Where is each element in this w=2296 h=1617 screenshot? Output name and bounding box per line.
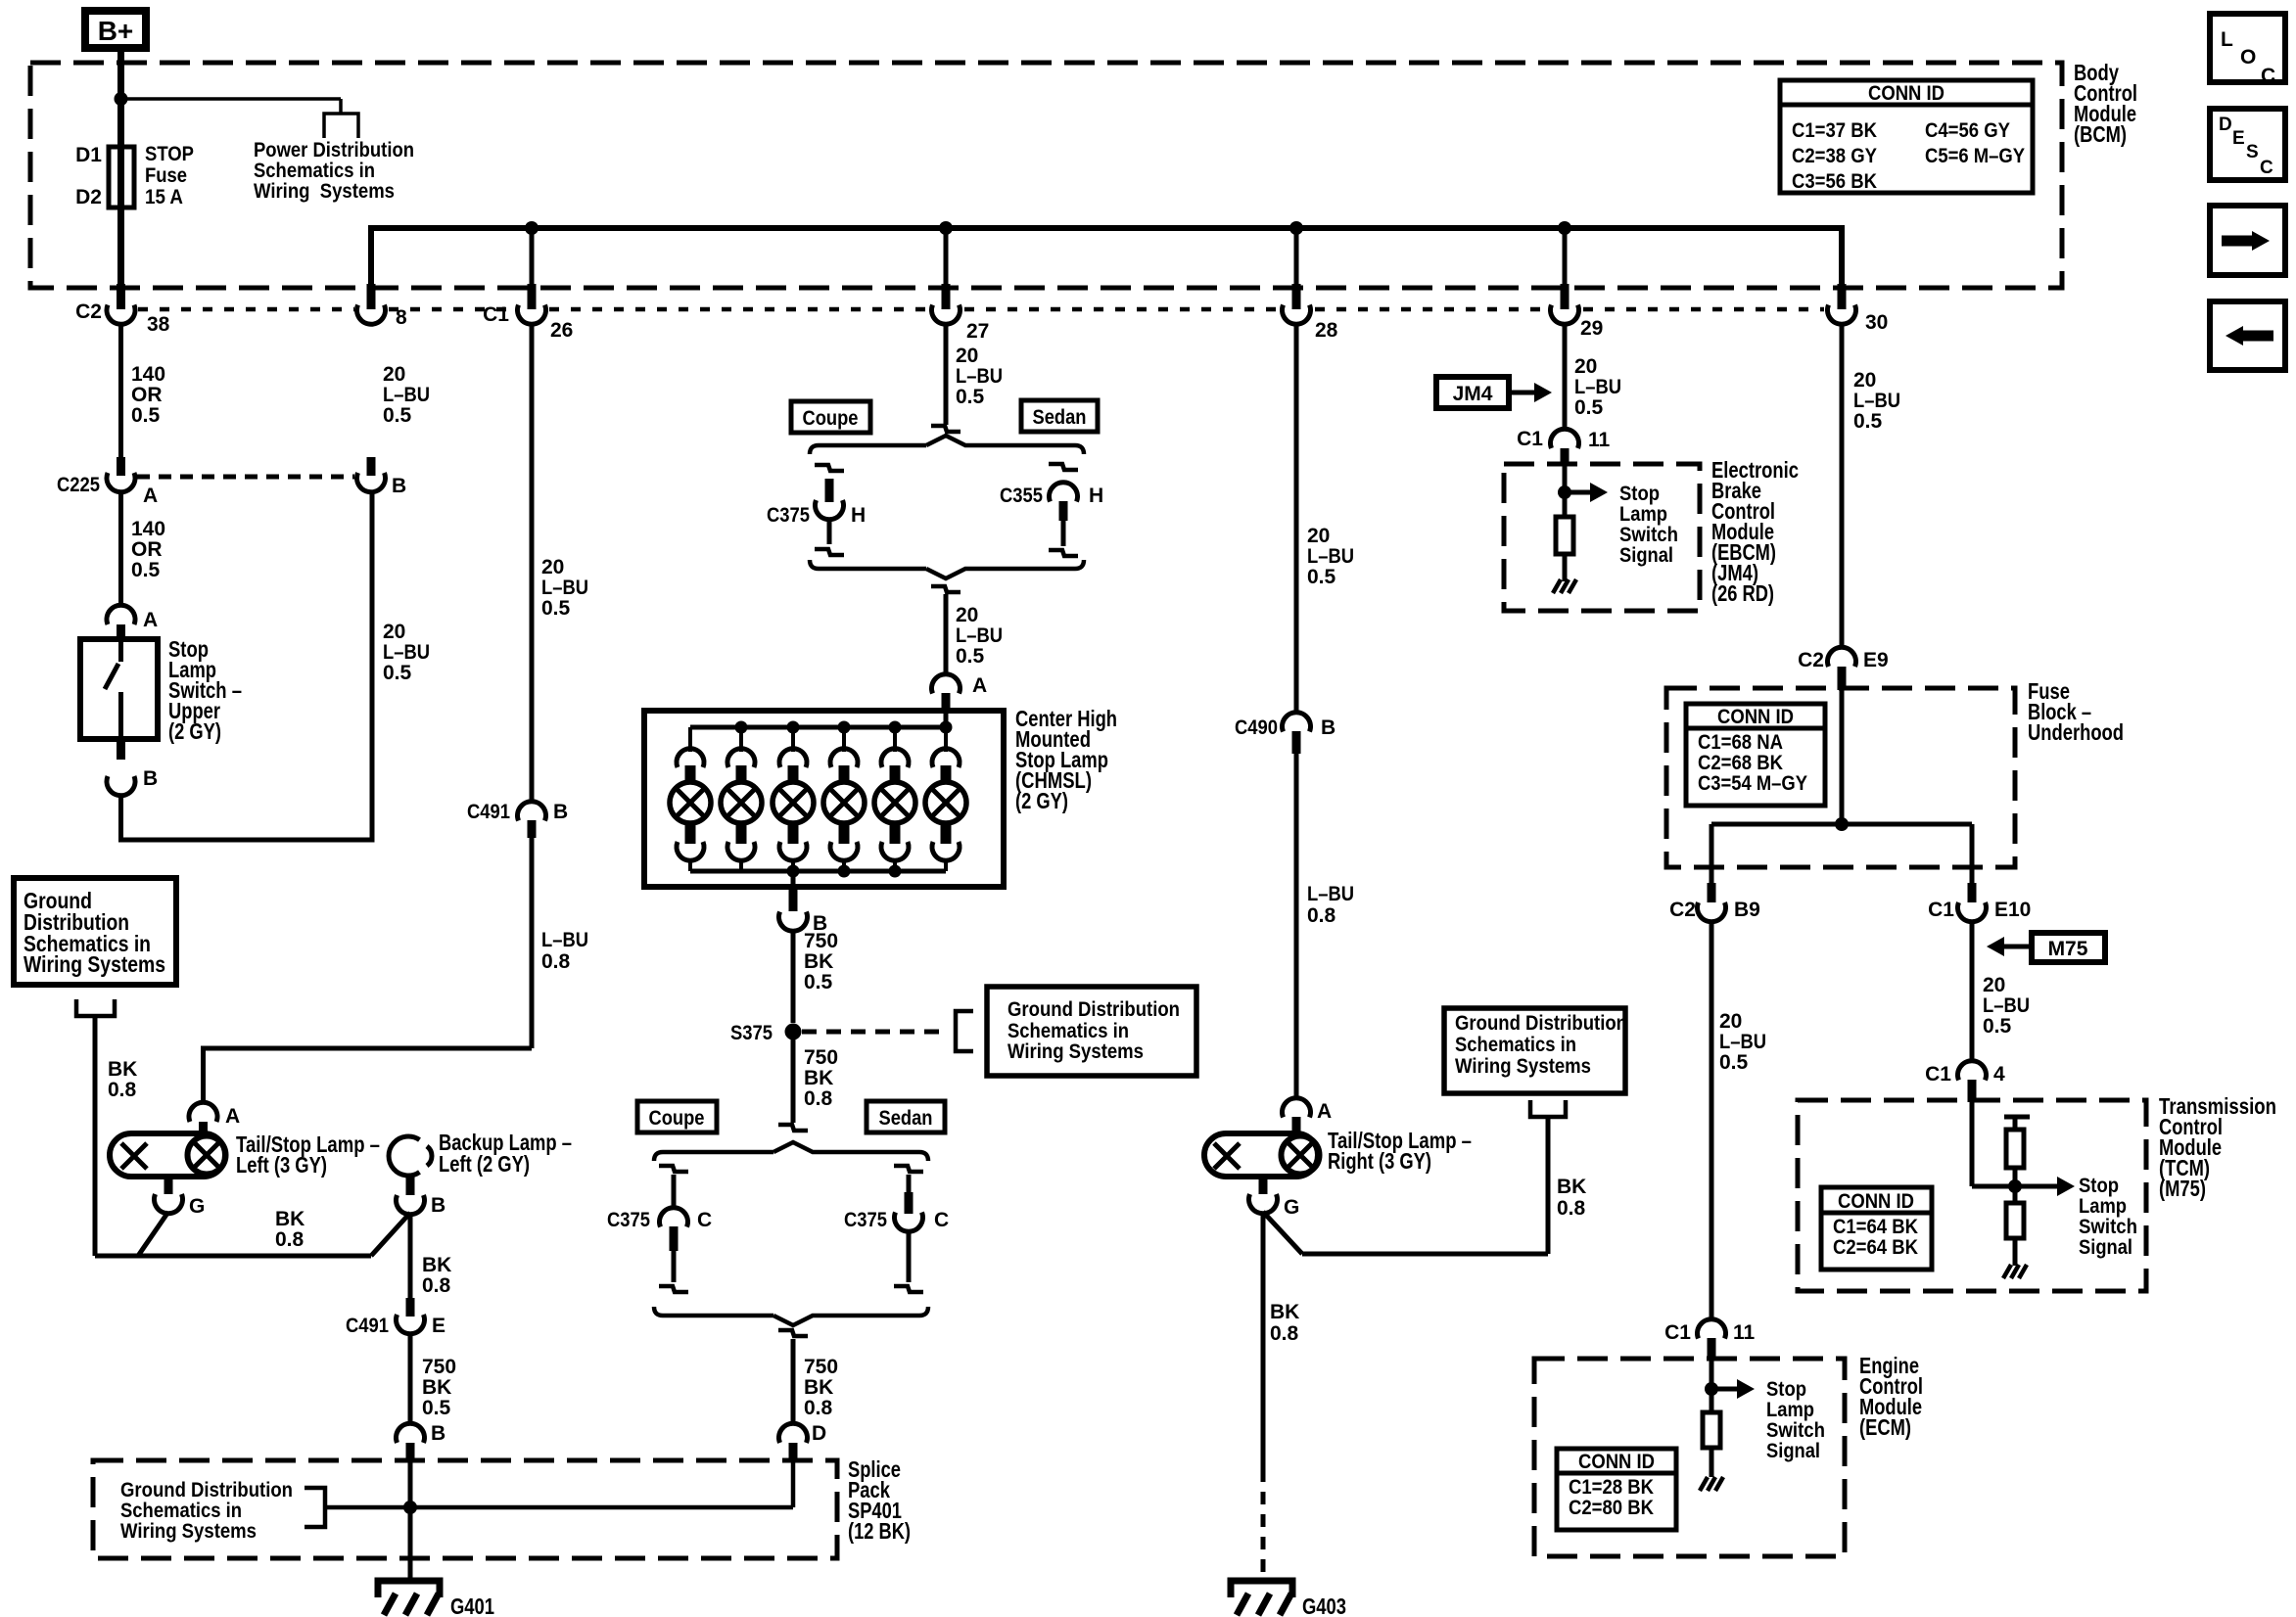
svg-text:20: 20 [1307,525,1330,547]
svg-text:B: B [392,475,406,497]
svg-text:Switch: Switch [1619,524,1678,546]
junction bus x966 [939,221,953,235]
svg-text:0.5: 0.5 [422,1397,451,1419]
terminal bar TCM [2004,1115,2030,1120]
svg-text:30: 30 [1865,311,1888,334]
svg-text:750: 750 [804,1356,838,1378]
svg-text:0.5: 0.5 [1719,1051,1749,1074]
wire bus drop x543 [530,228,535,285]
svg-text:C: C [697,1209,712,1231]
svg-text:4: 4 [1993,1063,2005,1086]
junction bus x1598 [1558,221,1571,235]
connector C490 B [1283,713,1311,732]
connector splice B [397,1423,425,1443]
svg-text:Switch: Switch [2079,1216,2137,1238]
connector backup lamp B [397,1195,425,1215]
connector arc pin 29 [1550,305,1578,325]
nav box LOC [2210,14,2285,82]
wire C375H lower [827,518,832,544]
arrow stop lamp switch signal TCM [2057,1177,2075,1196]
svg-text:750: 750 [804,930,838,952]
svg-text:C3=54 M–GY: C3=54 M–GY [1698,772,1807,795]
svg-text:E: E [2232,128,2245,149]
svg-text:B: B [553,801,568,823]
CONN ID table fuse block [1686,704,1825,806]
junction bottom bus [787,865,800,878]
svg-text:0.5: 0.5 [1307,566,1336,588]
svg-text:BK: BK [804,1067,833,1089]
junction top bus [735,721,748,734]
svg-text:0.8: 0.8 [804,1087,833,1110]
wire ground run left [95,1254,371,1259]
svg-text:BK: BK [108,1058,137,1081]
wire bus drop x1324 [1294,228,1299,285]
backup lamp B stub [406,1175,415,1195]
connector switch pin A [107,605,135,624]
svg-text:20: 20 [383,621,405,643]
svg-text:C1: C1 [1517,428,1543,450]
wire break before split bottom [778,1125,808,1131]
svg-text:0.8: 0.8 [1307,904,1336,927]
wire 20 L-BU to CHMSL [944,594,949,675]
svg-text:C2: C2 [75,300,102,323]
svg-text:BK: BK [275,1208,305,1230]
svg-text:Ground Distribution: Ground Distribution [120,1479,293,1501]
wire 20 L-BU E10 to TCM [1970,920,1975,1063]
svg-text:Ground Distribution: Ground Distribution [1455,1012,1627,1035]
wire break C375C-R top [894,1166,923,1172]
svg-text:L–BU: L–BU [383,384,430,406]
svg-text:C2=38 GY: C2=38 GY [1792,145,1877,167]
wire break 27 [931,426,961,432]
wire bus drop x1598 [1563,228,1568,285]
connector CHMSL A [932,674,961,694]
svg-text:20: 20 [1719,1010,1742,1033]
wire 20 L-BU pin28 [1294,323,1299,714]
svg-text:Wiring Systems: Wiring Systems [23,951,165,977]
svg-text:B9: B9 [1734,899,1760,921]
svg-text:B: B [431,1194,445,1217]
wire BK 0.8 to G403 [1261,1212,1266,1469]
junction bottom bus [889,865,902,878]
svg-text:20: 20 [956,604,978,626]
svg-text:C1=37 BK: C1=37 BK [1792,119,1877,142]
svg-text:0.5: 0.5 [131,404,161,427]
svg-text:0.5: 0.5 [1574,396,1604,419]
svg-text:C: C [934,1209,949,1231]
connector arc pin 26 [518,305,546,325]
wire break C375C-L top [659,1166,688,1172]
ground ECM internal [1700,1477,1708,1491]
wire CHMSL top bus [690,725,946,730]
wire ground run right [1302,1252,1548,1257]
wire CHMSL bottom bus [690,869,946,874]
connector left lamp A [189,1102,217,1122]
M75 box [2032,933,2105,962]
left lamp A stub [199,1122,208,1135]
svg-text:L–BU: L–BU [956,624,1003,647]
svg-text:C1=68 NA: C1=68 NA [1698,731,1783,754]
svg-text:(2 GY): (2 GY) [1015,788,1068,813]
svg-text:A: A [225,1105,240,1128]
svg-text:B+: B+ [98,16,134,46]
switch pin B stub [117,739,125,760]
svg-text:L–BU: L–BU [1983,994,2030,1017]
svg-text:E: E [432,1315,445,1337]
ground distribution box right [1444,1008,1625,1093]
svg-text:C375: C375 [767,504,810,527]
svg-text:C2: C2 [1798,649,1824,671]
svg-text:L–BU: L–BU [1307,883,1354,905]
bulb CHMSL 6 [944,727,948,752]
svg-text:O: O [2240,46,2256,69]
svg-text:L: L [2221,28,2233,51]
svg-text:Stop: Stop [1619,483,1660,505]
svg-text:0.5: 0.5 [383,662,412,684]
svg-text:C3=56 BK: C3=56 BK [1792,170,1877,193]
connector splice D [779,1423,808,1443]
svg-text:BK: BK [1557,1176,1586,1198]
svg-text:B: B [431,1422,445,1445]
wire 20 L-BU B9 to ECM [1710,920,1714,1321]
bulb CHMSL 3 [791,727,795,752]
connector arc pin 8 [357,305,386,325]
svg-text:20: 20 [541,556,564,578]
svg-text:29: 29 [1580,317,1603,340]
junction splice [403,1501,417,1514]
svg-text:C1: C1 [1664,1321,1691,1344]
wire 750 BK 0.5 [408,1333,413,1425]
left lamp G stub [164,1177,173,1194]
ground TCM internal [2003,1265,2011,1278]
coupe box top [791,401,870,433]
svg-text:0.5: 0.5 [804,971,833,993]
wire 20 L-BU pin30 [1840,323,1845,649]
svg-text:C225: C225 [57,474,100,496]
splice D stub [789,1443,798,1462]
wire to left lamp A [204,1048,533,1103]
svg-text:Coupe: Coupe [649,1107,705,1130]
right lamp G stub [1259,1177,1268,1194]
svg-text:Wiring Systems: Wiring Systems [1007,1040,1144,1063]
wire L-BU 0.8 to left lamp [530,838,535,1048]
splice pack dashed box [93,1460,837,1558]
junction B+ tap [115,92,128,106]
svg-text:C490: C490 [1235,716,1278,739]
svg-text:Ground Distribution: Ground Distribution [1007,998,1180,1021]
C375 C coupe stub [670,1226,679,1251]
wire break C355H bottom [1049,550,1078,556]
wire splice to D [791,1462,796,1507]
connector C355 H [1050,483,1078,502]
junction TCM divider [2008,1179,2022,1193]
svg-text:D2: D2 [75,186,102,208]
arrow stop lamp switch signal ECM [1711,1387,1737,1392]
wire 750 BK 0.8 [791,1039,796,1123]
C1 11 ECM stub [1708,1338,1716,1361]
svg-text:20: 20 [383,363,405,386]
ground distribution box mid [987,987,1196,1076]
connector arc pin 30 [1828,305,1856,325]
svg-text:C1: C1 [1928,899,1954,921]
svg-text:CONN ID: CONN ID [1717,706,1794,728]
svg-text:C375: C375 [844,1209,887,1231]
brace merge coupe/sedan top [810,560,1084,578]
backup lamp left symbol [389,1136,419,1176]
svg-text:140: 140 [131,363,165,386]
pin stub 8 [367,284,376,309]
svg-text:(12 BK): (12 BK) [848,1518,911,1544]
svg-text:750: 750 [804,1046,838,1069]
wire B+ feed into BCM [117,48,124,99]
wire break C355H top [1049,464,1078,470]
bracket splice text [305,1488,325,1527]
C375 C sedan stub [905,1192,914,1214]
bulb CHMSL 4 [842,727,846,752]
svg-text:Wiring Systems: Wiring Systems [1455,1055,1591,1078]
CHMSL A stub [942,693,951,711]
svg-text:L–BU: L–BU [541,577,588,599]
wire break C375H top [815,465,844,471]
junction bus x1324 [1289,221,1303,235]
svg-text:C: C [2261,65,2275,87]
connector arc pin 38 [107,305,135,325]
svg-text:L–BU: L–BU [1574,376,1621,398]
connector CHMSL B [779,912,808,932]
svg-text:L–BU: L–BU [1307,545,1354,568]
svg-text:C1=64 BK: C1=64 BK [1833,1216,1918,1238]
svg-text:S375: S375 [730,1022,773,1044]
ground EBCM internal [1553,579,1561,593]
wire through STOP fuse [117,99,124,286]
nav box arrow left [2210,301,2285,370]
connector C1 E10 [1958,902,1987,922]
wire TCM signal [1972,1184,2057,1189]
svg-text:BK: BK [1270,1301,1299,1323]
CONN ID table BCM [1780,80,2033,193]
wire break C375C-R bottom [894,1286,923,1292]
junction top bus [889,721,902,734]
splice S375 [785,1024,802,1040]
connector C491 E [397,1315,425,1334]
svg-text:Right (3 GY): Right (3 GY) [1328,1148,1431,1174]
svg-text:0.8: 0.8 [1270,1322,1299,1345]
connector right lamp G [1248,1194,1277,1214]
EBCM dashed box [1504,464,1700,611]
wire 20 L-BU pin26 [530,323,535,803]
svg-text:0.8: 0.8 [275,1228,305,1251]
resistor EBCM [1556,517,1573,554]
svg-text:BK: BK [422,1376,451,1399]
CHMSL B stub [789,889,798,911]
wire break after merge bottom [778,1330,808,1336]
junction top bus [787,721,800,734]
svg-text:G403: G403 [1302,1594,1346,1617]
svg-text:0.8: 0.8 [541,950,571,973]
resistor TCM lower [2006,1203,2024,1238]
pin stub 29 [1561,284,1570,309]
wire right lamp ground diagonal [1263,1212,1302,1254]
pin stub 38 [117,284,125,309]
svg-text:BK: BK [422,1254,451,1276]
svg-text:L–BU: L–BU [956,365,1003,388]
svg-text:A: A [1317,1100,1332,1123]
pin stub 30 [1838,284,1847,309]
wire C375C-R [907,1175,912,1192]
arrow JM4 to wire [1509,391,1534,395]
svg-text:G: G [1284,1196,1299,1219]
ground distribution box left [14,878,176,985]
svg-text:Fuse: Fuse [145,164,187,187]
connector C375 H [816,500,844,520]
svg-text:Signal: Signal [1619,544,1673,567]
svg-text:C375: C375 [607,1209,650,1231]
wire break C375H bottom [815,549,844,555]
svg-text:750: 750 [422,1356,456,1378]
wire 750 BK 0.5 to S375 [791,930,796,1023]
off-page bracket power distribution [324,114,358,138]
svg-text:B: B [1321,716,1335,739]
C491 B stub [528,820,537,838]
dashed inline connector C225 [137,475,354,480]
CONN ID table TCM [1821,1187,1932,1270]
svg-text:Left (2 GY): Left (2 GY) [439,1151,530,1177]
svg-text:C1=28 BK: C1=28 BK [1569,1476,1654,1499]
svg-text:38: 38 [147,313,170,336]
wire CHMSL output [791,871,796,891]
svg-text:20: 20 [956,345,978,367]
svg-text:Sedan: Sedan [1033,406,1087,429]
wire switch output to C225 B [121,491,373,840]
svg-text:Wiring Systems: Wiring Systems [120,1520,257,1543]
svg-text:28: 28 [1315,319,1338,342]
svg-text:G: G [189,1195,205,1218]
svg-text:C2: C2 [1669,899,1696,921]
svg-text:C5=6 M–GY: C5=6 M–GY [1925,145,2025,167]
svg-text:Switch: Switch [1766,1419,1825,1442]
svg-text:Stop: Stop [2079,1175,2119,1197]
svg-text:D: D [2219,115,2232,135]
wire BK 0.8 up to ground box [1546,1117,1551,1254]
svg-text:26: 26 [550,319,573,342]
svg-text:0.8: 0.8 [422,1274,451,1297]
svg-text:Schematics in: Schematics in [1007,1020,1129,1042]
ground G403 [1231,1581,1292,1597]
connector right lamp A [1283,1098,1311,1118]
TCM dashed box [1798,1100,2146,1291]
wire TCM internal [1970,1102,1975,1186]
junction top bus [940,721,953,734]
connector switch pin B [107,776,135,796]
svg-text:20: 20 [1574,355,1597,378]
svg-text:0.5: 0.5 [541,597,571,620]
wire L-BU 0.8 to right lamp [1294,754,1299,1099]
C375 H stub [825,479,834,502]
sedan box bottom [867,1101,945,1132]
wire tap to power distribution [121,97,342,101]
dashed wire to G403 [1261,1469,1266,1581]
svg-text:L–BU: L–BU [383,641,430,664]
wire BK 0.8 down to C491 E [408,1213,413,1298]
CHMSL box [644,711,1004,887]
svg-text:Signal: Signal [2079,1236,2132,1259]
fuse block dashed box [1666,688,2015,867]
svg-text:0.5: 0.5 [131,559,161,581]
svg-text:Schematics in: Schematics in [1455,1034,1576,1056]
bulb CHMSL 2 [739,727,743,752]
svg-text:20: 20 [1983,974,2005,996]
splice B stub [406,1443,415,1462]
svg-text:20: 20 [1853,369,1876,392]
junction ECM signal [1705,1382,1718,1396]
svg-text:Coupe: Coupe [803,407,859,430]
wire BK 0.8 from ground box [93,1016,98,1256]
connector arc pin 27 [932,305,961,325]
arrow M75 to wire [2004,945,2032,949]
svg-text:STOP: STOP [145,143,194,165]
brace split coupe/sedan bottom [654,1142,928,1161]
svg-text:JM4: JM4 [1453,383,1493,405]
svg-text:CONN ID: CONN ID [1838,1190,1914,1213]
svg-text:15 A: 15 A [145,186,183,208]
svg-text:CONN ID: CONN ID [1578,1451,1655,1473]
svg-text:Stop: Stop [1766,1378,1806,1401]
svg-text:L–BU: L–BU [1853,390,1900,412]
wire 140 OR to switch [118,491,123,604]
wire 140 OR to C225 [118,323,123,457]
C491 E stub [406,1298,415,1317]
wire 20 L-BU pin29 [1563,323,1568,431]
junction bus x543 [525,221,539,235]
wire backup lamp ground diagonal [371,1213,410,1256]
pin stub 28 [1292,284,1301,309]
C225 pin B stub [367,457,376,476]
connector C375 C sedan [894,1213,922,1232]
wire left lamp ground diagonal [138,1212,168,1256]
fuse STOP 15A [109,147,134,208]
arrow stop lamp switch signal EBCM [1565,490,1590,495]
svg-text:C355: C355 [1000,485,1043,507]
coupe box bottom [637,1101,717,1132]
svg-text:M75: M75 [2048,938,2088,960]
bracket ground ref mid [956,1011,973,1051]
C490 B stub [1292,731,1301,754]
svg-text:0.5: 0.5 [956,645,985,668]
wire break C375C-L bottom [659,1286,688,1292]
connector arc pin 28 [1283,305,1311,325]
svg-text:E10: E10 [1994,899,2031,921]
switch pin A stub [117,624,125,640]
brace merge bottom [654,1307,928,1325]
svg-text:0.8: 0.8 [804,1397,833,1419]
svg-text:Left (3 GY): Left (3 GY) [236,1152,327,1178]
svg-text:OR: OR [131,538,163,561]
svg-text:(M75): (M75) [2159,1176,2206,1201]
svg-text:Wiring Systems: Wiring Systems [254,180,395,203]
wire 750 BK 0.8 to splice D [791,1339,796,1425]
svg-text:D: D [812,1422,826,1445]
svg-text:C491: C491 [467,801,510,823]
tail/stop lamp right [1204,1133,1318,1177]
svg-text:Lamp: Lamp [2079,1195,2127,1218]
connector C225 B [357,473,386,492]
svg-text:C1: C1 [483,303,509,326]
C355 H stub [1059,501,1068,521]
svg-text:C4=56 GY: C4=56 GY [1925,119,2010,142]
junction bottom bus [838,865,851,878]
svg-text:H: H [1089,485,1103,507]
svg-text:Underhood: Underhood [2028,719,2124,745]
